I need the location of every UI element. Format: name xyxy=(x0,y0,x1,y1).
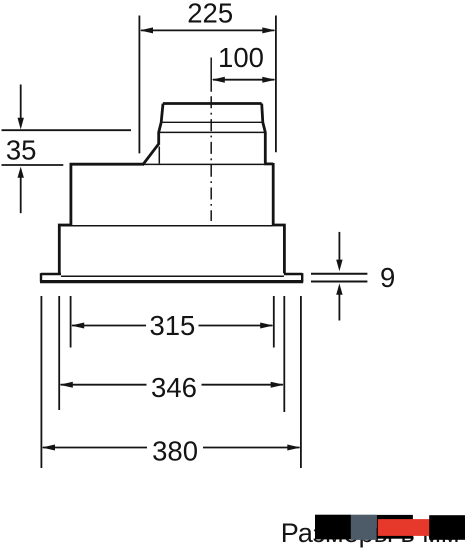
dim 225 extension lines xyxy=(139,16,276,154)
redaction box red xyxy=(378,519,433,536)
dim 346 line xyxy=(61,384,283,386)
dim 315 arrows xyxy=(71,323,84,329)
dim 9 arrow shafts xyxy=(338,232,340,321)
upper body top edge (thin rear part) xyxy=(144,163,265,165)
dim 35 reference lines xyxy=(2,130,132,165)
dim 346 arrows xyxy=(60,382,73,388)
dim 100 arrows xyxy=(212,77,225,83)
dim 35 arrowheads xyxy=(18,118,24,130)
svg-text:9: 9 xyxy=(380,262,395,293)
dim 380 arrows xyxy=(42,445,55,451)
upper body top edge (thick left part) xyxy=(70,163,144,166)
bottom plate xyxy=(40,273,303,282)
redaction box black 3 xyxy=(429,515,465,540)
redaction box black 1 xyxy=(315,515,351,540)
svg-text:225: 225 xyxy=(187,0,233,29)
dim 225 arrows xyxy=(140,27,153,33)
center line xyxy=(210,58,212,222)
svg-text:380: 380 xyxy=(152,436,198,467)
svg-text:346: 346 xyxy=(151,372,197,403)
dimension texts xyxy=(6,0,395,467)
collar seam lower xyxy=(158,131,266,133)
dim 225 line xyxy=(141,29,274,31)
hood sloped front edge xyxy=(143,143,160,165)
redaction box black 2 xyxy=(377,515,413,539)
upper + lower body left side xyxy=(59,163,71,273)
dim 9 reference lines xyxy=(311,274,367,282)
collar seam upper xyxy=(161,121,264,123)
svg-text:100: 100 xyxy=(218,42,264,73)
bottom extension lines xyxy=(41,296,301,468)
dim 100 line xyxy=(213,79,274,81)
dim 315 line xyxy=(72,325,272,327)
arrowheads xyxy=(18,27,343,450)
svg-text:315: 315 xyxy=(149,310,195,341)
slope inner edge xyxy=(158,147,160,164)
duct collar outline xyxy=(159,104,266,164)
redaction box slate xyxy=(351,515,377,540)
dim 380 line xyxy=(43,447,300,449)
upper body right step xyxy=(264,162,273,165)
upper + lower body right side xyxy=(273,163,284,273)
dim 9 arrowheads xyxy=(336,260,342,272)
dim 35 arrows shafts xyxy=(20,85,22,214)
svg-text:35: 35 xyxy=(6,134,37,165)
middle step rear edge xyxy=(61,225,273,227)
